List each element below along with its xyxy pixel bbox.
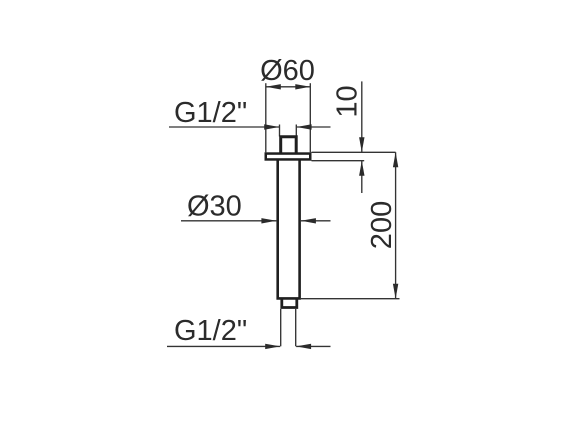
arrowhead Ø30 right [301, 218, 316, 223]
svg-text:Ø30: Ø30 [187, 191, 242, 223]
extension line left of Ø60 [265, 83, 267, 152]
svg-text:G1/2": G1/2" [174, 315, 247, 347]
arrowhead Ø60 right [295, 84, 310, 89]
dimension line 200 [395, 152, 397, 298]
arrowhead G1/2" bottom left [265, 344, 280, 349]
svg-text:10: 10 [332, 85, 364, 117]
arrowhead 10 upper (down) [359, 137, 364, 152]
bottom thread pipe right line [295, 309, 297, 346]
leader line G1/2" bottom [167, 345, 280, 347]
svg-text:G1/2": G1/2" [174, 97, 247, 129]
extension line top thread right [295, 125, 297, 137]
dimension line Ø30 right [301, 220, 331, 222]
arrowhead G1/2" bottom right [296, 344, 311, 349]
extension line top thread left [279, 125, 281, 137]
extension line right of Ø60 [309, 83, 311, 152]
dimension line 10 upper [361, 81, 363, 152]
svg-text:Ø60: Ø60 [260, 55, 315, 87]
extension line pipe bottom [301, 298, 400, 300]
svg-text:200: 200 [366, 201, 398, 249]
bottom thread pipe left line [280, 309, 282, 346]
arrowhead G1/2" top right [297, 124, 312, 129]
arrowhead Ø60 left [266, 84, 281, 89]
dimension line 10 lower [361, 161, 363, 193]
arrowhead G1/2" top left [264, 124, 279, 129]
extension line flange bottom [312, 160, 365, 162]
dimension line Ø60 [266, 86, 311, 88]
opposing dimension line G1/2" top right [297, 126, 331, 128]
shower arm pipe body [278, 161, 300, 299]
leader line G1/2" top [169, 126, 279, 128]
opposing dimension line G1/2" bottom right [296, 345, 330, 347]
arrowhead 200 bottom (down) [393, 284, 398, 299]
arrowhead 10 lower (up) [359, 161, 364, 176]
arrowhead Ø30 left [261, 218, 276, 223]
extension line flange top (shared by 10 and 200) [312, 151, 396, 153]
arrowhead 200 top (up) [393, 152, 398, 167]
dimension line Ø30 left [181, 220, 276, 222]
top connector thread boss [281, 137, 297, 154]
ceiling flange plate [266, 154, 311, 160]
bottom nut collar [282, 298, 297, 307]
